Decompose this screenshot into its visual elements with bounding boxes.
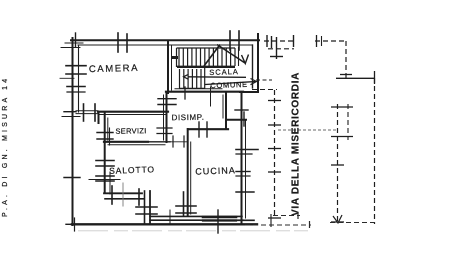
- wall camera bottom thin left part: [76, 110, 98, 112]
- tick left wall at y112: [64, 111, 76, 113]
- ticks on x337 pair: [331, 107, 353, 222]
- svg-text:SALOTTO: SALOTTO: [109, 164, 155, 176]
- grey centre dashed line: [278, 129, 338, 131]
- svg-text:P.A. DI GN. MISURA 14: P.A. DI GN. MISURA 14: [2, 76, 9, 217]
- tick vertical above salotto bottom: [109, 172, 111, 194]
- ticks servizi left wall: [97, 132, 113, 134]
- wall salotto bottom double: [104, 192, 142, 194]
- ticks servizi right wall: [157, 127, 172, 129]
- tick porch bottom center: [217, 210, 219, 233]
- wall salotto top: [104, 141, 148, 143]
- tick vertical x244 near jog: [243, 112, 245, 126]
- tick right wall y110: [235, 109, 248, 111]
- window ticks top wall pair1: [117, 33, 119, 52]
- tick vertical x271: [270, 214, 272, 227]
- arrowhead left at lower flight: [184, 74, 189, 79]
- dashed vertical x274: [274, 90, 276, 216]
- svg-text:CUCINA: CUCINA: [195, 165, 236, 176]
- window ticks left wall pair1: [66, 65, 86, 67]
- wall left outer: [72, 38, 74, 225]
- svg-text:SCALA: SCALA: [209, 67, 239, 77]
- dashes arrow continuation outside: [256, 79, 272, 81]
- threshold dark: [203, 216, 236, 219]
- dashed vertical pair x348: [347, 104, 349, 140]
- window ticks camera bottom: [83, 104, 85, 121]
- tick left wall lower: [64, 177, 80, 179]
- wall top outer: [71, 39, 259, 41]
- ticks divider lower: [176, 205, 196, 207]
- wall top inner: [78, 44, 252, 46]
- wall disimp right: [225, 92, 227, 129]
- window ticks left wall pair2: [67, 86, 85, 88]
- dashed bottom line far right: [330, 222, 378, 224]
- ticks at its start: [316, 35, 318, 47]
- window ticks top wall pair2: [229, 31, 231, 50]
- stair walk arrow to exit: [188, 76, 246, 79]
- dashed bottom line lower: [245, 224, 311, 226]
- ticks on x274: [268, 101, 281, 219]
- svg-text:SERVIZI: SERVIZI: [115, 126, 146, 136]
- dashed vertical x374 long: [374, 78, 376, 224]
- wall porch left vertical pair: [144, 191, 146, 223]
- wall bottom outer: [72, 223, 257, 225]
- arrow mark bottom of x337: [333, 215, 342, 223]
- stair lower flight treads: [179, 68, 205, 89]
- wall stair left: [167, 41, 169, 93]
- wall right lower: [241, 92, 243, 223]
- wall salotto left: [104, 112, 106, 193]
- dashed bottom line upper: [273, 215, 300, 217]
- svg-text:VIA DELLA MISERICORDIA: VIA DELLA MISERICORDIA: [291, 72, 302, 216]
- window ticks salotto left pair1: [96, 160, 114, 162]
- solid short line y78: [336, 77, 375, 79]
- ticks porch left wall: [136, 206, 157, 208]
- dark short line bottom right: [230, 219, 254, 221]
- window ticks salotto left pair2: [96, 175, 114, 177]
- dashed line below stair exit: [252, 89, 277, 91]
- dimension line left: [60, 77, 74, 79]
- ticks central wall upper: [158, 98, 176, 100]
- overshoot line left of corner: [61, 47, 80, 49]
- wall jog disimp to right wall: [226, 119, 246, 121]
- ticks right wall lower: [236, 149, 258, 151]
- wall salotto-cucina divider: [187, 129, 189, 216]
- corner tick top-left: [75, 33, 77, 47]
- arrowhead down: [242, 55, 249, 64]
- wall cucina top: [188, 128, 228, 130]
- wall central x167: [166, 92, 168, 142]
- stair upper flight treads: [177, 48, 236, 67]
- faint fold line bottom: [78, 230, 308, 232]
- tick at end of y78 line: [374, 71, 376, 84]
- ticks stair bottom wall: [184, 87, 186, 99]
- ticks cucina top wall: [198, 122, 200, 137]
- landing right boundary: [238, 47, 240, 66]
- ticks salotto bottom: [111, 186, 113, 204]
- tick at end: [297, 212, 299, 219]
- svg-text:DISIMP.: DISIMP.: [171, 113, 204, 123]
- stair niche mark left: [172, 56, 178, 59]
- dashed walkway top pair: [264, 41, 296, 49]
- svg-text:CAMERA: CAMERA: [89, 63, 140, 75]
- dashed top-right horizontal: [315, 40, 347, 42]
- dashed vertical pair x337: [337, 104, 339, 223]
- wall below divider: [183, 192, 185, 216]
- wall servizi west stub: [98, 112, 100, 123]
- wall porch bottom double: [150, 215, 242, 217]
- wall jog right at stair base: [240, 91, 258, 93]
- arrow line through COMUNE with right arrowhead: [205, 82, 256, 85]
- walkway ticks: [267, 35, 294, 59]
- wall stair bottom: [166, 91, 243, 93]
- wall left inner: [78, 45, 80, 112]
- tick at its end: [309, 221, 311, 228]
- dashed vertical x346 upper: [345, 41, 347, 78]
- stair direction diagonal 1: [204, 45, 220, 67]
- stair direction diagonal 2 with arrowhead: [217, 45, 245, 64]
- wall right upper inner: [252, 45, 254, 88]
- stair flight separator heavy: [177, 66, 235, 68]
- svg-text:COMUNE: COMUNE: [210, 80, 248, 90]
- corner tick bottom-left: [66, 223, 80, 225]
- wall right upper outer: [257, 34, 259, 92]
- door opening salotto top right: [170, 141, 188, 143]
- tick right wall bottom join: [236, 191, 254, 193]
- plus tick at x346 y75: [340, 74, 352, 76]
- wall camera bottom thick: [98, 111, 168, 113]
